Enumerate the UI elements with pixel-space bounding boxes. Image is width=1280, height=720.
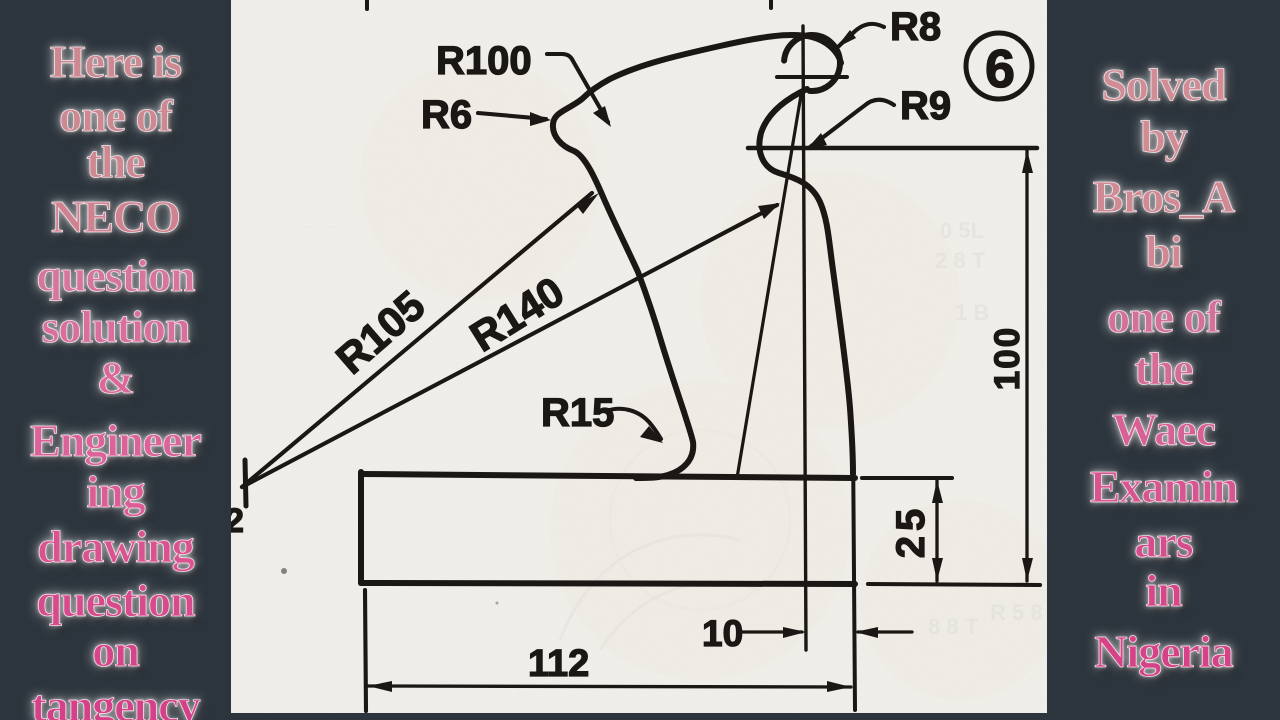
R6 leader <box>478 113 546 119</box>
R9 leader arrow <box>806 133 827 150</box>
R140 arrow <box>758 203 780 219</box>
top tick mark right <box>769 0 773 8</box>
100 dimension line <box>1025 150 1028 581</box>
convergence point tick <box>245 460 246 506</box>
steep construction line <box>737 95 801 478</box>
R8 leader <box>839 24 884 46</box>
10 dimension right segment <box>858 630 912 633</box>
svg-text:R15: R15 <box>541 391 614 435</box>
svg-text:2: 2 <box>231 502 244 540</box>
112 right arrow <box>827 681 851 692</box>
scanned paper with engineering drawing <box>231 0 1047 713</box>
faint bleed-through arcs <box>560 430 790 650</box>
10 right-segment arrow <box>855 627 878 638</box>
svg-text:R8: R8 <box>890 5 941 49</box>
svg-text:112: 112 <box>528 643 589 685</box>
svg-text:10: 10 <box>702 613 743 654</box>
right edge vertical (profile/base/extension) <box>853 440 855 710</box>
dimension labels <box>225 5 1027 685</box>
112 left extension line <box>365 590 366 711</box>
10 left-segment arrow <box>783 627 806 638</box>
R100 leader arrow <box>593 106 611 127</box>
faint ghost bleed-through marks <box>299 205 1043 639</box>
25 dimension line <box>935 480 938 581</box>
top tick mark left <box>365 0 369 9</box>
100 bottom arrow <box>1022 558 1033 581</box>
arrowheads <box>368 30 1033 692</box>
vertical centerline through R8 circle down to base <box>803 26 806 650</box>
112 left arrow <box>368 681 392 692</box>
112 dimension line <box>368 686 851 687</box>
25 top arrow <box>932 480 943 503</box>
paper specks <box>281 568 287 574</box>
svg-text:____: ____ <box>299 205 350 230</box>
base plate bottom edge <box>361 583 855 584</box>
base plate left edge <box>358 472 364 583</box>
100 top arrow <box>1022 150 1033 173</box>
10 dimension left segment <box>739 630 802 633</box>
R100 top arc, R6 tip, inner left curve, R15 fillet <box>553 35 841 478</box>
svg-text:R6: R6 <box>421 93 472 137</box>
svg-text:25: 25 <box>889 504 933 559</box>
R8 circle (open at bottom-left) <box>784 35 840 91</box>
R8 leader arrow <box>836 30 856 48</box>
circled 6 badge <box>966 33 1032 99</box>
svg-text:0 5L: 0 5L <box>940 218 984 243</box>
svg-text:6: 6 <box>985 39 1015 99</box>
left dark panel text <box>0 39 231 85</box>
svg-text:1 B: 1 B <box>955 300 989 325</box>
svg-text:R9: R9 <box>900 84 951 128</box>
R9 leader <box>810 100 894 147</box>
warm scan blotches <box>360 60 1060 700</box>
base plate top edge <box>361 474 855 478</box>
R105 arrow <box>576 193 599 214</box>
svg-text:100: 100 <box>988 326 1027 390</box>
right dark panel text <box>1047 62 1280 108</box>
base bottom extension to 25 and 100 dims <box>868 584 1040 585</box>
horizontal centerline at top of 100 dimension <box>748 146 1037 151</box>
S-curve R9 and outer right curve R140 <box>759 89 853 474</box>
horizontal centerline bar of R8 circle <box>777 75 847 79</box>
svg-text:R100: R100 <box>436 39 532 83</box>
R140 radius line <box>242 205 777 487</box>
base top extension for 25 dim <box>862 476 952 480</box>
25 bottom arrow <box>932 558 943 581</box>
R100 leader <box>547 54 608 122</box>
R6 leader arrow <box>530 112 551 126</box>
R15 leader <box>606 409 661 439</box>
R15 leader arrow <box>640 426 663 443</box>
R105 radius line <box>242 193 592 487</box>
